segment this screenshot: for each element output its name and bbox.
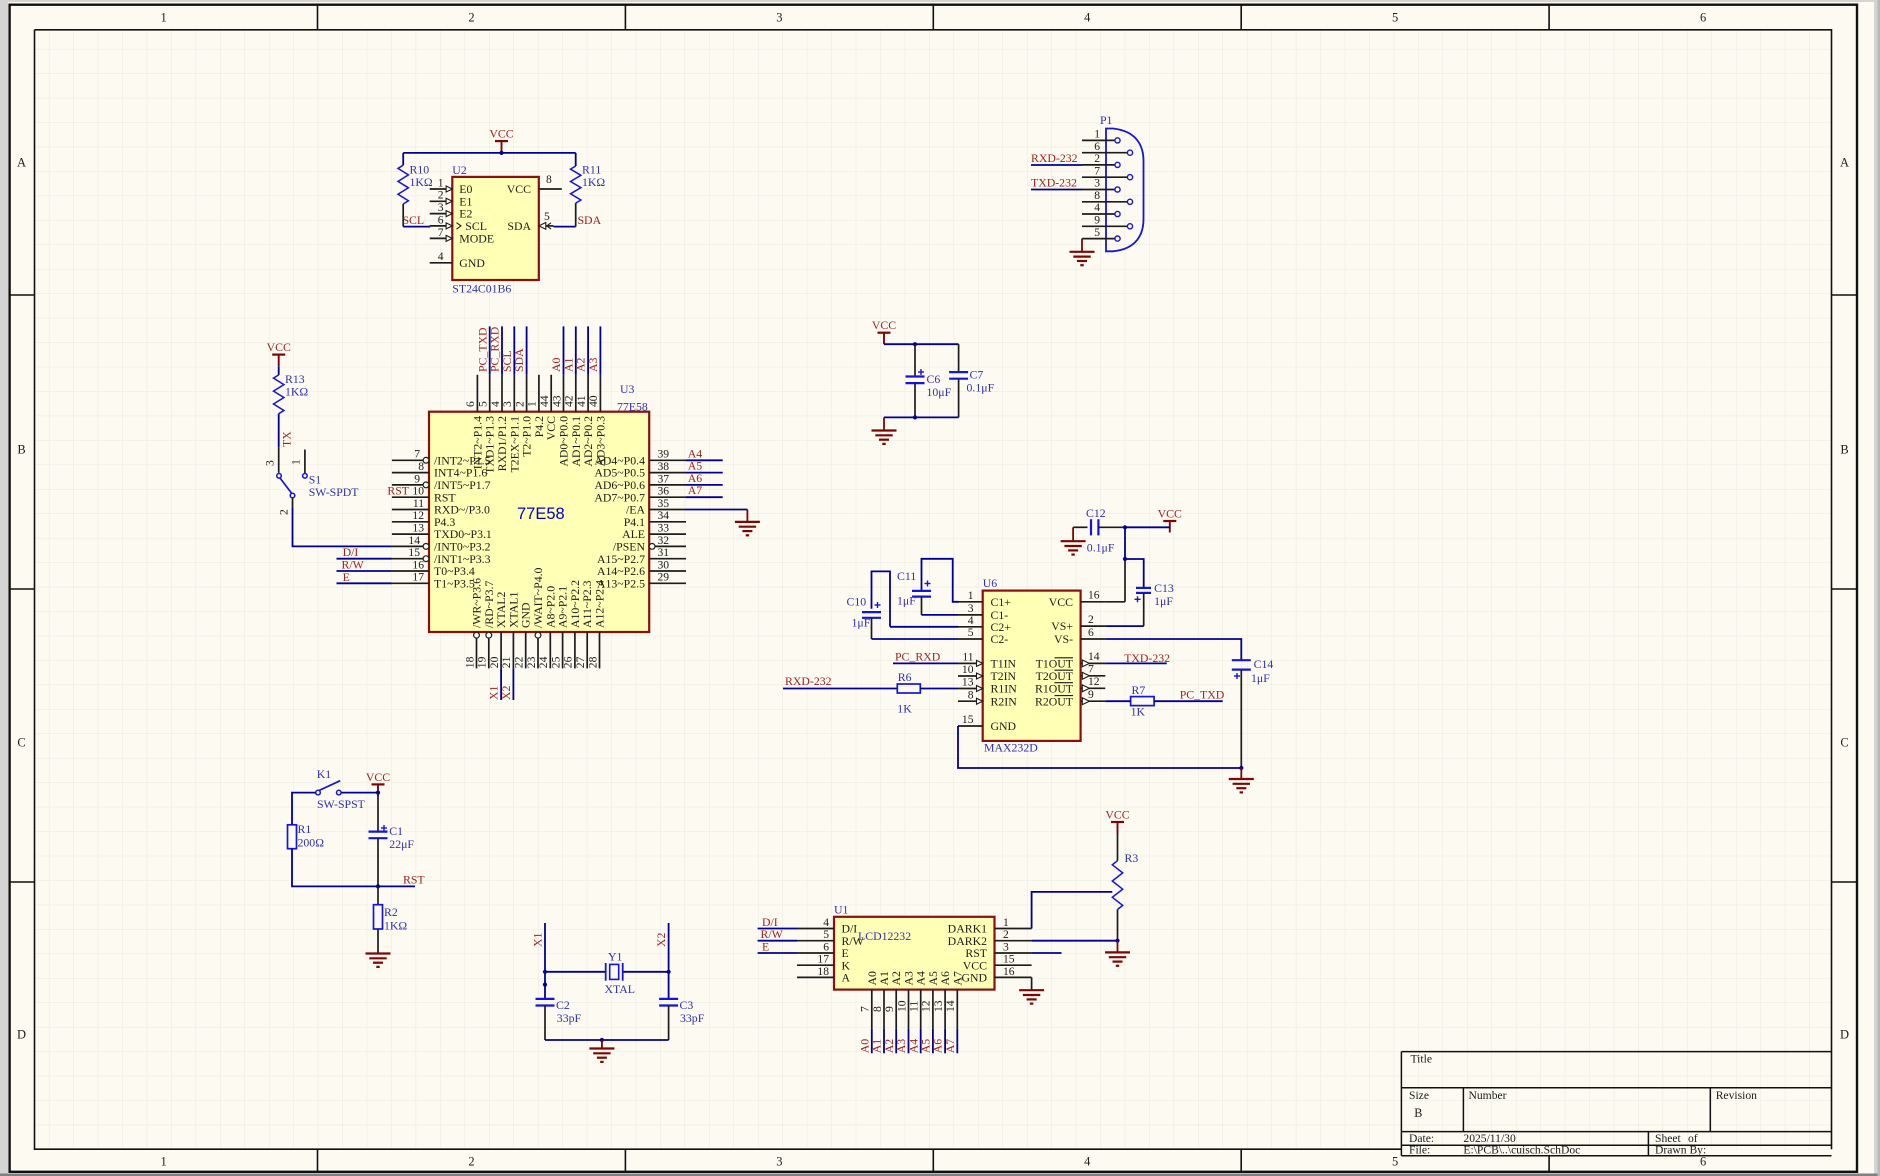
wire TXD-232 — [1105, 662, 1166, 664]
wire to ground (Y1) — [601, 1040, 603, 1049]
svg-text:A7: A7 — [950, 971, 964, 986]
U1 left pins — [797, 916, 865, 985]
svg-text:16: 16 — [1003, 965, 1015, 978]
svg-text:4: 4 — [489, 401, 502, 407]
power VCC (U2) — [489, 127, 513, 153]
resistor R13 — [274, 366, 309, 414]
node X2/Y1 — [667, 970, 671, 974]
svg-text:A7: A7 — [943, 1039, 957, 1054]
svg-text:A: A — [17, 155, 26, 169]
svg-text:25: 25 — [549, 656, 562, 668]
svg-text:1μF: 1μF — [1251, 671, 1270, 685]
ground (C14) — [1229, 779, 1254, 792]
svg-text:6: 6 — [823, 940, 829, 953]
svg-text:RXD-232: RXD-232 — [785, 674, 832, 688]
U3 right pins — [594, 448, 686, 591]
svg-text:4: 4 — [1084, 11, 1091, 25]
node VCC-U2 junction — [499, 151, 503, 155]
svg-text:E: E — [762, 939, 769, 953]
svg-text:3: 3 — [501, 401, 514, 407]
U3 top pins — [464, 326, 607, 474]
wire U1 RST — [1032, 952, 1062, 954]
svg-text:6: 6 — [1094, 140, 1100, 153]
wire U6 GND to C14 bottom — [958, 726, 1241, 768]
svg-text:6: 6 — [438, 213, 444, 226]
svg-text:77E58: 77E58 — [517, 505, 565, 523]
svg-text:VCC: VCC — [489, 127, 513, 141]
resistor R2 — [374, 886, 408, 953]
svg-text:SCL: SCL — [403, 213, 425, 227]
svg-text:20: 20 — [488, 656, 501, 668]
svg-text:3: 3 — [1003, 940, 1009, 953]
svg-text:7: 7 — [414, 448, 420, 461]
svg-text:13: 13 — [412, 522, 424, 535]
svg-text:33: 33 — [658, 522, 670, 535]
svg-text:30: 30 — [658, 558, 670, 571]
wire RXD-232 to R6 — [783, 688, 897, 690]
svg-text:1K: 1K — [1131, 705, 1146, 719]
svg-text:GND: GND — [961, 971, 987, 985]
resistor R1 — [288, 822, 325, 849]
svg-text:26: 26 — [562, 656, 575, 668]
svg-text:43: 43 — [550, 395, 563, 407]
svg-text:SDA: SDA — [578, 213, 602, 227]
svg-text:Number: Number — [1469, 1089, 1507, 1102]
svg-text:1: 1 — [1003, 916, 1009, 929]
svg-text:5: 5 — [968, 626, 974, 639]
wires+labels A4-A7 — [686, 446, 723, 497]
wire U1 GND to ground — [1031, 977, 1033, 990]
svg-text:11: 11 — [413, 497, 424, 510]
svg-text:0.1μF: 0.1μF — [967, 380, 995, 394]
svg-text:31: 31 — [658, 546, 670, 559]
capacitor C11 — [897, 559, 959, 615]
svg-text:Y1: Y1 — [608, 950, 623, 964]
svg-text:22: 22 — [513, 656, 526, 668]
title block — [1401, 1052, 1831, 1156]
svg-text:D: D — [1840, 1027, 1849, 1041]
wire to ground (R3) — [1117, 941, 1119, 953]
svg-text:1: 1 — [1094, 128, 1100, 141]
svg-text:42: 42 — [563, 395, 576, 407]
svg-text:MODE: MODE — [459, 232, 494, 246]
svg-text:15: 15 — [962, 713, 974, 726]
svg-text:1μF: 1μF — [1154, 594, 1173, 608]
svg-text:B: B — [1840, 442, 1848, 456]
U1 right pins — [948, 916, 1032, 985]
svg-text:13: 13 — [962, 676, 974, 689]
switch K1 SW-SPST — [316, 767, 366, 811]
resistor R11 — [571, 153, 606, 227]
svg-text:TXD-232: TXD-232 — [1031, 176, 1077, 190]
wire PC_RXD — [893, 662, 958, 664]
ground (U1) — [1019, 990, 1044, 1003]
wire C12 to ground — [1072, 527, 1074, 541]
power VCC (MAX232) — [1158, 507, 1182, 533]
svg-text:77E58: 77E58 — [617, 400, 648, 414]
svg-text:39: 39 — [658, 448, 670, 461]
IC U1 LCD12232 body — [834, 903, 995, 990]
wire D/I — [337, 558, 392, 560]
wire K1 right — [341, 792, 378, 794]
svg-text:C2-: C2- — [991, 632, 1009, 646]
svg-text:28: 28 — [586, 656, 599, 668]
svg-text:A: A — [842, 971, 851, 985]
svg-text:LCD12232: LCD12232 — [858, 929, 911, 943]
wire E (U1) — [758, 952, 797, 954]
wire S1 pin2 to U3 pin14 — [278, 498, 392, 547]
power VCC (C6) — [872, 318, 896, 344]
svg-text:9: 9 — [414, 472, 420, 485]
svg-text:1: 1 — [526, 401, 539, 407]
svg-text:32: 32 — [658, 534, 670, 547]
svg-text:C3: C3 — [680, 998, 694, 1012]
svg-text:1KΩ: 1KΩ — [582, 175, 605, 189]
svg-text:VCC: VCC — [267, 340, 291, 354]
svg-text:15: 15 — [408, 546, 420, 559]
capacitor C13 — [1135, 581, 1174, 626]
svg-text:7: 7 — [1088, 663, 1094, 676]
wire R7 to PC_TXD — [1154, 700, 1223, 702]
wire TXD-232 to P1 — [1031, 189, 1082, 191]
svg-text:R2OUT: R2OUT — [1035, 694, 1074, 708]
svg-text:2: 2 — [1088, 613, 1094, 626]
svg-text:R6: R6 — [898, 670, 912, 684]
connector P1 DB9 — [1082, 128, 1144, 252]
svg-text:200Ω: 200Ω — [298, 835, 325, 849]
ground (C12) — [1061, 541, 1086, 554]
svg-text:5: 5 — [1392, 1155, 1398, 1169]
svg-text:44: 44 — [538, 395, 551, 407]
svg-text:R7: R7 — [1132, 683, 1146, 697]
svg-text:17: 17 — [817, 953, 829, 966]
svg-text:7: 7 — [859, 1006, 872, 1012]
svg-text:7: 7 — [1094, 164, 1100, 177]
svg-text:3: 3 — [264, 460, 277, 466]
svg-text:1KΩ: 1KΩ — [285, 385, 308, 399]
svg-text:C: C — [17, 735, 25, 749]
svg-text:C11: C11 — [897, 569, 916, 583]
svg-text:X2: X2 — [654, 932, 668, 947]
U1 bottom pins A0-A7 — [857, 971, 964, 1053]
svg-text:A3: A3 — [586, 357, 600, 372]
node crystal ground — [600, 1038, 604, 1042]
svg-text:2: 2 — [1003, 928, 1009, 941]
svg-text:GND: GND — [991, 719, 1017, 733]
svg-text:6: 6 — [1700, 11, 1706, 25]
svg-text:GND: GND — [459, 256, 485, 270]
capacitor C6 — [906, 344, 952, 417]
wire crystal ground rail — [545, 1039, 669, 1041]
resistor R7 — [1131, 683, 1155, 719]
svg-text:37: 37 — [658, 472, 670, 485]
svg-text:11: 11 — [962, 651, 973, 664]
svg-text:33pF: 33pF — [680, 1011, 705, 1025]
capacitor C2 — [536, 998, 582, 1040]
ground (Y1) — [589, 1049, 614, 1062]
capacitor C7 — [949, 344, 994, 417]
svg-text:C1: C1 — [389, 824, 403, 838]
svg-text:8: 8 — [418, 460, 424, 473]
wire /EA to ground — [686, 509, 747, 511]
svg-text:8: 8 — [871, 1006, 884, 1012]
svg-text:34: 34 — [658, 509, 670, 522]
ground (/EA) — [735, 522, 760, 535]
svg-text:8: 8 — [968, 688, 974, 701]
svg-text:Title: Title — [1411, 1053, 1432, 1066]
svg-text:6: 6 — [464, 401, 477, 407]
svg-text:RST: RST — [387, 484, 409, 498]
wire X2 to C3 — [668, 972, 670, 999]
wire X1 to C2 — [544, 972, 546, 999]
svg-text:22μF: 22μF — [389, 837, 414, 851]
svg-text:C14: C14 — [1254, 657, 1274, 671]
svg-text:1KΩ: 1KΩ — [410, 175, 433, 189]
node C13 junction — [1123, 557, 1127, 561]
wire SDA — [554, 226, 576, 228]
ground (P1) — [1070, 252, 1095, 265]
svg-text:VS-: VS- — [1054, 632, 1073, 646]
svg-text:AD3~P0.3: AD3~P0.3 — [593, 416, 607, 467]
svg-text:C10: C10 — [847, 595, 867, 609]
capacitor C12 — [1073, 506, 1125, 555]
svg-text:5: 5 — [544, 210, 550, 223]
svg-text:PC_TXD: PC_TXD — [1180, 688, 1225, 702]
svg-text:A12~P2.4: A12~P2.4 — [593, 580, 607, 628]
power VCC (R13) — [267, 340, 291, 366]
wire C12 to VCC — [1125, 526, 1170, 528]
svg-text:3: 3 — [776, 1155, 782, 1169]
svg-text:R2IN: R2IN — [991, 694, 1018, 708]
svg-text:4: 4 — [1084, 1155, 1091, 1169]
svg-text:Size: Size — [1409, 1089, 1429, 1102]
capacitor C1 — [369, 793, 415, 887]
svg-text:1KΩ: 1KΩ — [384, 919, 407, 933]
power VCC (R3) — [1105, 808, 1129, 834]
svg-text:A: A — [1840, 155, 1849, 169]
svg-text:36: 36 — [658, 485, 670, 498]
svg-text:1K: 1K — [897, 702, 912, 716]
svg-text:1: 1 — [438, 176, 444, 189]
wire K1 left — [292, 793, 316, 825]
svg-text:2: 2 — [468, 11, 474, 25]
svg-text:23: 23 — [525, 656, 538, 668]
U6 left pins — [958, 589, 1017, 733]
svg-text:12: 12 — [412, 509, 424, 522]
wire P1 pin5 to ground — [1081, 239, 1083, 252]
svg-text:SW-SPST: SW-SPST — [317, 797, 366, 811]
crystal Y1 — [545, 950, 669, 997]
node X1/C2 — [543, 983, 547, 987]
wire DARK1 to R3 wiper — [1032, 892, 1113, 929]
svg-text:2: 2 — [468, 1155, 474, 1169]
svg-text:21: 21 — [500, 656, 513, 668]
svg-text:1: 1 — [290, 459, 303, 465]
svg-text:14: 14 — [408, 534, 420, 547]
svg-text:10μF: 10μF — [927, 385, 952, 399]
svg-text:R3: R3 — [1125, 851, 1139, 865]
svg-text:16: 16 — [1088, 589, 1100, 602]
svg-text:1μF: 1μF — [852, 616, 871, 630]
IC U6 MAX232D body — [983, 576, 1081, 755]
wire R/W (U1) — [758, 940, 797, 942]
svg-text:A7: A7 — [688, 483, 703, 497]
svg-text:5: 5 — [1094, 226, 1100, 239]
svg-text:33pF: 33pF — [557, 1011, 582, 1025]
U3 left pins — [392, 448, 492, 591]
svg-text:5: 5 — [823, 928, 829, 941]
wire R/W — [337, 570, 392, 572]
svg-text:10: 10 — [412, 485, 424, 498]
wire DARK2 — [1032, 940, 1118, 942]
wire to ground (C6) — [883, 417, 885, 430]
svg-text:27: 27 — [574, 656, 587, 668]
svg-text:VCC: VCC — [1105, 808, 1129, 822]
svg-text:8: 8 — [1094, 189, 1100, 202]
svg-text:ST24C01B6: ST24C01B6 — [452, 282, 511, 296]
node DARK2/R3 junction — [1115, 939, 1119, 943]
node C6 top — [913, 342, 917, 346]
wire E — [337, 582, 392, 584]
wire R1 to RST rail — [292, 849, 415, 887]
resistor R6 — [897, 670, 920, 716]
svg-text:3: 3 — [438, 201, 444, 214]
capacitor C14 — [1232, 657, 1274, 768]
svg-text:4: 4 — [968, 614, 974, 627]
svg-text:40: 40 — [587, 395, 600, 407]
svg-text:8: 8 — [546, 173, 552, 186]
svg-text:1: 1 — [968, 589, 974, 602]
svg-text:U6: U6 — [983, 576, 998, 590]
svg-text:38: 38 — [658, 460, 670, 473]
svg-text:10: 10 — [895, 1000, 908, 1012]
U6 right pins — [1035, 589, 1105, 709]
node X1/Y1 — [543, 970, 547, 974]
svg-text:VCC: VCC — [507, 182, 531, 196]
wire VS- to C14 — [1105, 639, 1241, 660]
IC U3 77E58 body — [429, 382, 649, 632]
svg-text:29: 29 — [658, 571, 670, 584]
svg-text:2: 2 — [438, 189, 444, 202]
svg-text:E: E — [343, 570, 350, 584]
wire VCC rail U2 — [403, 152, 576, 154]
capacitor C10 — [847, 571, 959, 639]
svg-text:Revision: Revision — [1716, 1089, 1757, 1102]
node C6 bottom — [913, 415, 917, 419]
svg-text:2: 2 — [278, 509, 291, 515]
svg-text:K1: K1 — [317, 767, 332, 781]
svg-text:14: 14 — [1088, 650, 1100, 663]
svg-text:VS+: VS+ — [1051, 619, 1073, 633]
svg-text:R1: R1 — [298, 822, 312, 836]
svg-text:5: 5 — [477, 401, 490, 407]
svg-text:Drawn By:: Drawn By: — [1655, 1144, 1706, 1157]
svg-text:3: 3 — [776, 11, 782, 25]
wire C13 to U6 VS+ — [1105, 625, 1143, 627]
svg-text:U1: U1 — [834, 903, 849, 917]
svg-text:9: 9 — [1094, 214, 1100, 227]
svg-text:17: 17 — [412, 571, 424, 584]
svg-text:XTAL: XTAL — [605, 982, 636, 996]
svg-text:C1+: C1+ — [991, 595, 1012, 609]
svg-text:24: 24 — [537, 656, 550, 668]
svg-text:11: 11 — [908, 1001, 921, 1012]
resistor R10 — [398, 153, 433, 227]
wire junction to U6 VCC — [1124, 559, 1126, 602]
svg-text:R2: R2 — [384, 905, 398, 919]
svg-text:10: 10 — [962, 663, 974, 676]
svg-text:X1: X1 — [531, 932, 545, 947]
svg-text:7: 7 — [438, 226, 444, 239]
svg-text:P1: P1 — [1100, 113, 1113, 127]
svg-text:3: 3 — [1094, 177, 1100, 190]
ground (R3) — [1105, 952, 1130, 965]
wire R6 to U6 — [920, 688, 958, 690]
power VCC (K1) — [366, 770, 390, 796]
svg-text:B: B — [17, 442, 25, 456]
svg-text:E:\PCB\..\cuisch.SchDoc: E:\PCB\..\cuisch.SchDoc — [1463, 1144, 1580, 1157]
svg-text:35: 35 — [658, 497, 670, 510]
svg-text:B: B — [1414, 1106, 1422, 1120]
svg-text:0.1μF: 0.1μF — [1087, 541, 1115, 555]
svg-text:VCC: VCC — [872, 318, 896, 332]
svg-text:15: 15 — [1003, 953, 1015, 966]
svg-text:X2: X2 — [499, 685, 513, 700]
node RST junction — [376, 884, 380, 888]
resistor R3 — [1112, 834, 1138, 941]
wire C6/C7 bottom — [884, 416, 959, 418]
U3 bottom pins — [463, 567, 606, 700]
wire X2 vertical — [668, 923, 670, 972]
ground (R2) — [366, 954, 391, 967]
ground (C6) — [872, 431, 897, 444]
svg-text:SW-SPDT: SW-SPDT — [309, 485, 360, 499]
svg-text:5: 5 — [1392, 11, 1398, 25]
svg-text:RST: RST — [403, 872, 425, 886]
svg-text:PC_RXD: PC_RXD — [895, 650, 941, 664]
svg-text:6: 6 — [1088, 626, 1094, 639]
capacitor C3 — [659, 998, 705, 1040]
svg-text:U3: U3 — [620, 382, 635, 396]
svg-text:4: 4 — [1094, 201, 1100, 214]
wire SCL — [403, 226, 430, 228]
svg-text:SDA: SDA — [512, 348, 526, 372]
svg-text:1μF: 1μF — [897, 594, 916, 608]
switch S1 SW-SPDT — [264, 447, 360, 499]
node K1/VCC — [376, 791, 380, 795]
node C14 ground junction — [1239, 766, 1243, 770]
svg-text:4: 4 — [438, 250, 444, 263]
svg-text:18: 18 — [817, 965, 829, 978]
wire to ground (C14) — [1240, 768, 1242, 779]
svg-text:19: 19 — [476, 656, 489, 668]
svg-text:C2: C2 — [556, 998, 570, 1012]
svg-text:D: D — [17, 1027, 26, 1041]
node C12 junction — [1123, 525, 1127, 529]
wire VCC to C6/C7 — [884, 343, 959, 345]
svg-text:14: 14 — [944, 1000, 957, 1012]
wire X1 vertical — [544, 923, 546, 972]
wire R2OUT to R7 — [1105, 700, 1130, 702]
svg-text:R1OUT: R1OUT — [1035, 681, 1074, 695]
svg-text:2: 2 — [513, 401, 526, 407]
IC U2 ST24C01B6 — [430, 163, 562, 296]
svg-text:RXD-232: RXD-232 — [1031, 151, 1078, 165]
svg-text:1: 1 — [160, 11, 166, 25]
svg-text:VCC: VCC — [1158, 507, 1182, 521]
svg-text:C12: C12 — [1086, 506, 1106, 520]
svg-text:C13: C13 — [1154, 581, 1174, 595]
